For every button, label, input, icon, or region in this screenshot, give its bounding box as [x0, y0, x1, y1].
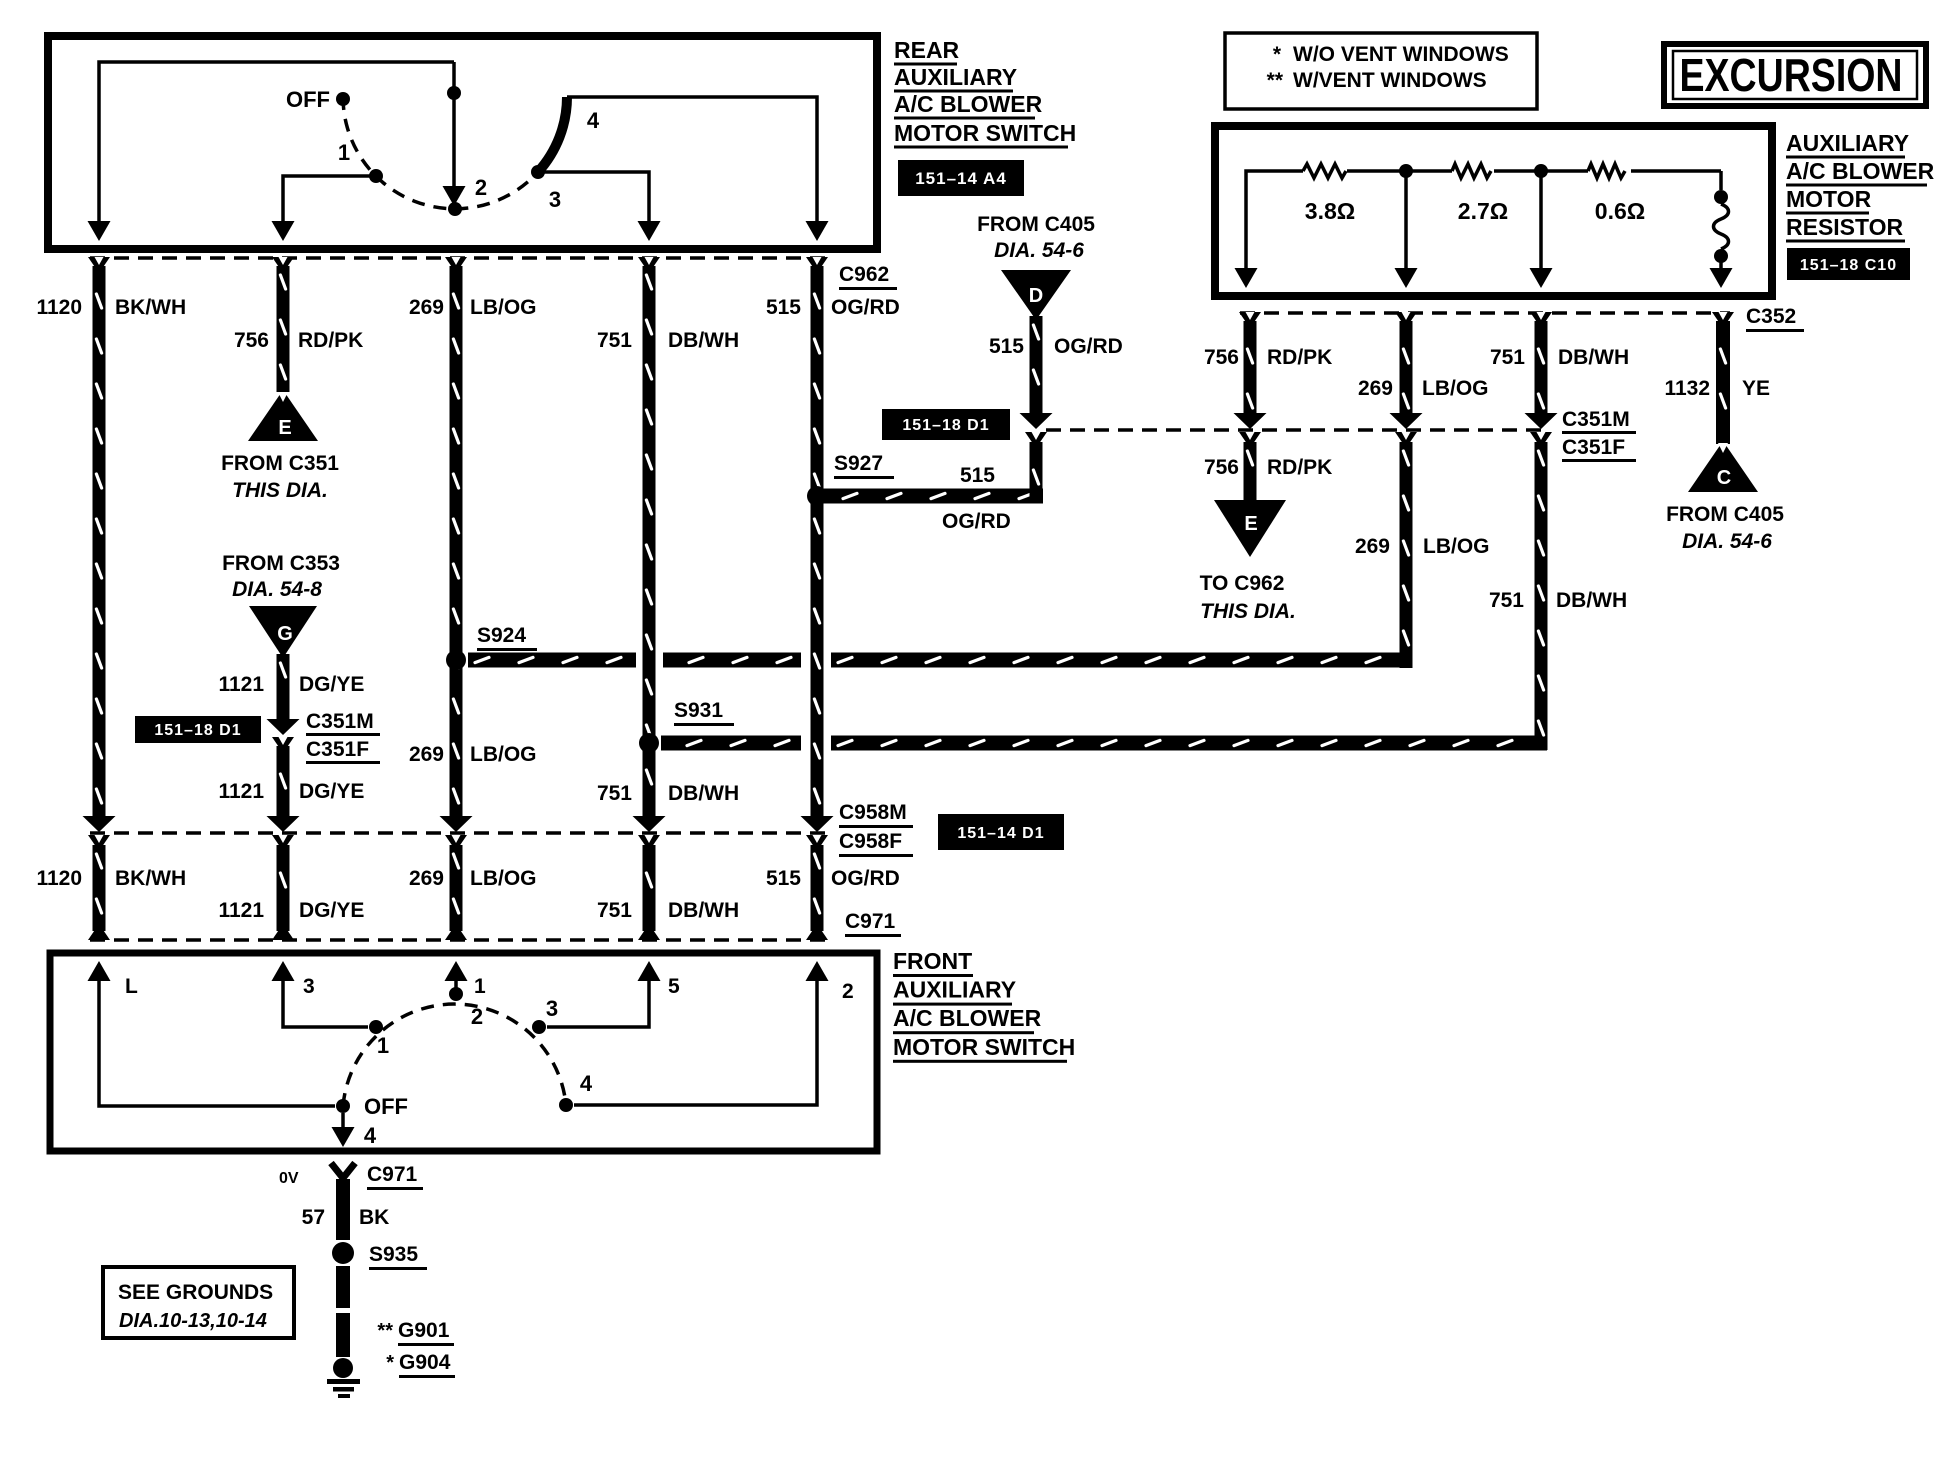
- grid ref 151-14 D1: [938, 814, 1064, 850]
- svg-text:*: *: [1273, 43, 1282, 66]
- ground symbol G901/G904: [327, 1379, 360, 1384]
- svg-text:1121: 1121: [218, 780, 264, 803]
- svg-text:MOTOR SWITCH: MOTOR SWITCH: [894, 120, 1076, 146]
- svg-text:751: 751: [597, 782, 632, 805]
- connector C351M/C351F inline on col2: arrow: [267, 719, 300, 735]
- svg-text:151–18 D1: 151–18 D1: [154, 722, 241, 739]
- wire 756 RD/PK (C351 to E): [1244, 442, 1257, 500]
- connector C352 terminal at x=1541: [1530, 312, 1552, 323]
- wire lower section at x=99: [93, 845, 106, 931]
- svg-text:C351F: C351F: [1562, 436, 1625, 459]
- svg-text:269: 269: [1355, 535, 1390, 558]
- svg-text:*: *: [386, 1352, 394, 1374]
- svg-text:C958F: C958F: [839, 830, 902, 853]
- connector C962 terminal at x=283: [272, 257, 294, 268]
- svg-text:4: 4: [587, 108, 600, 133]
- resistor assembly R1 AUXILIARY A/C BLOWER MOTOR RESISTOR enclosure: [1215, 126, 1772, 296]
- SW1 wiper column wire: [452, 62, 456, 192]
- svg-text:S931: S931: [674, 699, 723, 722]
- svg-text:DIA. 54-6: DIA. 54-6: [1682, 530, 1772, 553]
- svg-text:A/C BLOWER: A/C BLOWER: [893, 1005, 1042, 1031]
- SW1 contact 1: [369, 169, 383, 183]
- svg-text:57: 57: [302, 1206, 325, 1229]
- svg-text:2: 2: [475, 175, 487, 200]
- svg-text:E: E: [278, 417, 291, 439]
- wire 751 DB/WH (C351 down to S931 elbow): [1535, 442, 1548, 750]
- connector C958 pass-through at x=99: [83, 816, 116, 832]
- connector E (TO C962) triangle: [1214, 500, 1286, 557]
- connector C (FROM C405) triangle: [1688, 441, 1758, 492]
- connector C958 pass-through at x=283: [267, 816, 300, 832]
- SW1 contact 3: [531, 165, 545, 179]
- svg-text:OFF: OFF: [286, 87, 330, 112]
- SW2 contact 1: [369, 1020, 383, 1034]
- resistor element 0.6 ohm: [1588, 164, 1625, 178]
- wire 1121 DG/YE (C351 to C958): [277, 746, 290, 817]
- SW1 OFF contact: [336, 92, 350, 106]
- SW2 pin 1 arrow and wiper stem: [445, 961, 468, 981]
- R1 internal bus wire segments: [1246, 171, 1303, 272]
- svg-text:DB/WH: DB/WH: [668, 782, 739, 805]
- svg-text:DG/YE: DG/YE: [299, 780, 364, 803]
- svg-text:THIS DIA.: THIS DIA.: [1200, 600, 1296, 623]
- connector C971 (single, below SW2): [331, 1163, 355, 1178]
- svg-text:756: 756: [1204, 456, 1239, 479]
- wire lower section at x=456: [450, 845, 463, 931]
- svg-text:C971: C971: [845, 910, 896, 933]
- wire 269 LB/OG (right, upper): [1400, 321, 1413, 416]
- connector C958M/C958F dashed line: [90, 831, 831, 835]
- svg-text:THIS DIA.: THIS DIA.: [232, 479, 328, 502]
- svg-text:3: 3: [303, 975, 315, 998]
- svg-text:269: 269: [1358, 377, 1393, 400]
- connector C351 pass-through on 756 wire: [1234, 413, 1267, 429]
- svg-text:3: 3: [546, 996, 558, 1021]
- R1 tap wire med-high with arrow: [1539, 171, 1543, 272]
- wire 515 OG/RD (col5 upper): [811, 266, 824, 817]
- svg-text:RESISTOR: RESISTOR: [1786, 214, 1904, 240]
- R1 junction node C: [1534, 164, 1548, 178]
- svg-text:RD/PK: RD/PK: [1267, 346, 1332, 369]
- svg-text:1120: 1120: [36, 296, 82, 319]
- connector C962 terminal at x=817: [806, 257, 828, 268]
- wire S935 to ground (segment 2): [336, 1313, 350, 1357]
- svg-text:DB/WH: DB/WH: [668, 899, 739, 922]
- svg-text:2: 2: [471, 1004, 483, 1029]
- svg-text:**: **: [377, 1320, 393, 1342]
- svg-text:1: 1: [474, 975, 486, 998]
- wire splice S924 to 269 LB/OG riser (horizontal): [468, 653, 636, 668]
- svg-text:151–18 D1: 151–18 D1: [902, 417, 989, 434]
- ground terminal dot: [333, 1358, 353, 1378]
- wire D to S927 elbow (vertical): [1030, 442, 1043, 503]
- svg-text:5: 5: [668, 975, 680, 998]
- wire 1121 DG/YE (G to C351): [277, 654, 290, 719]
- SW1 pin 5 arrow: [638, 221, 661, 241]
- wire 1120 BK/WH (col1 upper): [93, 266, 106, 817]
- connector C351M/C351F inline on col2: socket: [272, 737, 294, 748]
- wire lower section at x=817: [811, 845, 824, 931]
- svg-text:G901: G901: [398, 1319, 450, 1342]
- resistor element 3.8 ohm: [1303, 164, 1346, 178]
- SW1 pin 2 arrow: [806, 221, 829, 241]
- svg-text:AUXILIARY: AUXILIARY: [894, 64, 1017, 90]
- svg-text:FROM C405: FROM C405: [1666, 503, 1784, 526]
- wire 1132 YE: [1716, 321, 1730, 444]
- svg-text:DIA. 54-6: DIA. 54-6: [994, 239, 1084, 262]
- svg-text:DG/YE: DG/YE: [299, 673, 364, 696]
- SW1 wire position4 to pin 2: [567, 97, 817, 222]
- svg-text:C962: C962: [839, 263, 889, 286]
- svg-text:0.6Ω: 0.6Ω: [1595, 198, 1645, 224]
- svg-text:FRONT: FRONT: [893, 948, 972, 974]
- SW2 contact 2 (top): [449, 987, 463, 1001]
- connector C962 terminal at x=99: [88, 257, 110, 268]
- wire 515 OG/RD from D: [1030, 316, 1043, 416]
- svg-text:LB/OG: LB/OG: [470, 743, 537, 766]
- note box SEE GROUNDS DIA.10-13,10-14: [103, 1267, 294, 1338]
- svg-text:0V: 0V: [279, 1170, 299, 1187]
- wire 751 DB/WH (col4 upper): [643, 266, 656, 817]
- svg-text:515: 515: [960, 464, 995, 487]
- svg-text:W/VENT WINDOWS: W/VENT WINDOWS: [1293, 69, 1487, 92]
- svg-text:C971: C971: [367, 1163, 418, 1186]
- svg-text:DB/WH: DB/WH: [1556, 589, 1627, 612]
- connector C971 dashed line: [90, 938, 831, 942]
- SW2 OFF output wire and arrow to pin 4: [341, 1113, 345, 1131]
- SW1 wiper position-4 contact bar (thick arc): [538, 97, 567, 172]
- wire lower section at x=283: [277, 845, 290, 931]
- note box vent windows: [1225, 33, 1537, 109]
- svg-text:RD/PK: RD/PK: [298, 329, 363, 352]
- svg-text:1132: 1132: [1664, 377, 1710, 400]
- svg-text:RD/PK: RD/PK: [1267, 456, 1332, 479]
- wire 57 BK: [336, 1179, 350, 1240]
- svg-text:MOTOR SWITCH: MOTOR SWITCH: [893, 1034, 1075, 1060]
- SW1 pin L arrow (down): [88, 221, 111, 241]
- wire 269 LB/OG (C351 down to S924 elbow): [1400, 442, 1413, 668]
- wire S935 to ground (segment 1): [336, 1266, 350, 1308]
- wire 756 RD/PK (col2 upper): [277, 266, 290, 392]
- svg-text:SEE GROUNDS: SEE GROUNDS: [118, 1281, 273, 1304]
- grid ref 151-18 C10: [1787, 248, 1910, 280]
- svg-text:OG/RD: OG/RD: [831, 867, 900, 890]
- svg-text:151–18 C10: 151–18 C10: [1800, 257, 1897, 274]
- connector C352 dashed line: [1240, 311, 1730, 315]
- svg-text:**: **: [1267, 69, 1284, 92]
- connector C958 pass-through at x=649: [633, 816, 666, 832]
- svg-text:OG/RD: OG/RD: [1054, 335, 1123, 358]
- SW2 rotary wiper dashed arc: [343, 1004, 566, 1106]
- wire lower section at x=649: [643, 845, 656, 931]
- svg-text:DB/WH: DB/WH: [1558, 346, 1629, 369]
- svg-text:EXCURSION: EXCURSION: [1680, 49, 1903, 101]
- svg-text:C958M: C958M: [839, 801, 907, 824]
- connector C962 dashed line: [90, 256, 831, 260]
- connector D (FROM C405) triangle: [1001, 270, 1071, 320]
- svg-text:756: 756: [1204, 346, 1239, 369]
- svg-text:DIA. 54-8: DIA. 54-8: [232, 578, 322, 601]
- svg-text:E: E: [1244, 513, 1257, 535]
- SW1 rotary wiper dashed arc: [343, 97, 538, 209]
- svg-text:FROM C353: FROM C353: [222, 552, 340, 575]
- svg-text:G904: G904: [399, 1351, 451, 1374]
- connector C351 pass-through on 751 wire: [1525, 413, 1558, 429]
- svg-text:1: 1: [338, 140, 350, 165]
- svg-text:C351M: C351M: [1562, 408, 1630, 431]
- SW1 pin 1 arrow: [272, 221, 295, 241]
- connector C351 pass-through on 269 wire: [1390, 413, 1423, 429]
- svg-text:515: 515: [989, 335, 1024, 358]
- resistor element 2.7 ohm: [1452, 164, 1491, 178]
- svg-text:4: 4: [364, 1123, 377, 1148]
- svg-text:2.7Ω: 2.7Ω: [1458, 198, 1508, 224]
- connector C958 pass-through at x=456: [440, 816, 473, 832]
- R1 right branch with thermal limiter coil: [1719, 171, 1723, 190]
- wire 269 LB/OG (col3 upper): [450, 266, 463, 817]
- R1 junction node B: [1399, 164, 1413, 178]
- svg-text:269: 269: [409, 867, 444, 890]
- splice S924: [446, 650, 466, 670]
- grid ref 151-18 D1 (right): [882, 409, 1010, 440]
- svg-text:S924: S924: [477, 624, 526, 647]
- svg-text:1120: 1120: [36, 867, 82, 890]
- svg-text:151–14 A4: 151–14 A4: [915, 169, 1007, 188]
- title box EXCURSION: [1664, 44, 1926, 106]
- svg-text:A/C BLOWER: A/C BLOWER: [1786, 158, 1935, 184]
- svg-text:FROM C351: FROM C351: [221, 452, 339, 475]
- switch SW1 REAR AUXILIARY A/C BLOWER MOTOR SWITCH enclosure: [48, 36, 877, 249]
- svg-text:FROM C405: FROM C405: [977, 213, 1095, 236]
- wire D to S927 (horizontal 515 OG/RD): [817, 489, 1043, 504]
- SW1 wire contact1 to pin 1: [283, 176, 376, 222]
- svg-text:OFF: OFF: [364, 1094, 408, 1119]
- svg-text:1121: 1121: [218, 673, 264, 696]
- svg-text:BK: BK: [359, 1206, 389, 1229]
- wire 756 RD/PK (right, upper): [1244, 321, 1257, 416]
- svg-text:LB/OG: LB/OG: [1423, 535, 1490, 558]
- svg-text:W/O VENT WINDOWS: W/O VENT WINDOWS: [1293, 43, 1509, 66]
- splice S927: [807, 486, 827, 506]
- svg-text:2: 2: [842, 980, 854, 1003]
- svg-text:C351M: C351M: [306, 710, 374, 733]
- svg-text:YE: YE: [1742, 377, 1770, 400]
- svg-text:C351F: C351F: [306, 738, 369, 761]
- SW2 contact 4: [559, 1098, 573, 1112]
- svg-text:DIA.10-13,10-14: DIA.10-13,10-14: [119, 1310, 267, 1332]
- svg-text:515: 515: [766, 296, 801, 319]
- SW2 pin 2 arrow and wire to contact 4: [806, 961, 829, 981]
- svg-text:C352: C352: [1746, 305, 1796, 328]
- svg-text:269: 269: [409, 296, 444, 319]
- svg-text:A/C BLOWER: A/C BLOWER: [894, 91, 1043, 117]
- connector G (FROM C353) triangle: [249, 606, 317, 658]
- svg-text:BK/WH: BK/WH: [115, 296, 186, 319]
- svg-text:AUXILIARY: AUXILIARY: [1786, 130, 1909, 156]
- R1 tap wire med-low with arrow: [1404, 171, 1408, 272]
- svg-text:TO C962: TO C962: [1200, 572, 1285, 595]
- SW1 wiper column arrow (down): [443, 186, 466, 206]
- svg-text:LB/OG: LB/OG: [1422, 377, 1489, 400]
- wire splice S931 to 751 DB/WH riser (horizontal): [661, 736, 801, 751]
- svg-text:LB/OG: LB/OG: [470, 296, 537, 319]
- splice S935: [332, 1242, 354, 1264]
- connector C962 terminal at x=649: [638, 257, 660, 268]
- SW1 contact 2 (bottom): [448, 202, 462, 216]
- svg-text:G: G: [277, 623, 293, 645]
- svg-text:751: 751: [1490, 346, 1525, 369]
- connector C351 pass-through on D wire: [1020, 413, 1053, 429]
- svg-text:1121: 1121: [218, 899, 264, 922]
- svg-text:S935: S935: [369, 1243, 418, 1266]
- svg-text:151–14 D1: 151–14 D1: [957, 825, 1044, 842]
- svg-text:BK/WH: BK/WH: [115, 867, 186, 890]
- svg-text:C: C: [1717, 467, 1731, 489]
- svg-text:515: 515: [766, 867, 801, 890]
- grid ref 151-18 D1 (left): [135, 716, 261, 743]
- svg-text:3.8Ω: 3.8Ω: [1305, 198, 1355, 224]
- svg-text:756: 756: [234, 329, 269, 352]
- SW2 pin 3 arrow and wire to contact 1: [272, 961, 295, 981]
- SW1 wire contact3 to pin 5: [538, 172, 649, 222]
- connector C352 terminal at x=1250: [1239, 312, 1261, 323]
- connector C962 terminal at x=456: [445, 257, 467, 268]
- svg-text:MOTOR: MOTOR: [1786, 186, 1872, 212]
- switch SW2 FRONT AUXILIARY A/C BLOWER MOTOR SWITCH enclosure: [50, 953, 877, 1151]
- SW2 contact 3: [532, 1020, 546, 1034]
- svg-text:S927: S927: [834, 452, 883, 475]
- connector E (FROM C351) triangle: [248, 390, 318, 441]
- svg-text:751: 751: [1489, 589, 1524, 612]
- SW2 pin L arrow (up) and wire to OFF: [88, 961, 111, 981]
- connector C352 terminal at x=1723: [1712, 312, 1734, 323]
- svg-text:AUXILIARY: AUXILIARY: [893, 977, 1016, 1003]
- svg-text:OG/RD: OG/RD: [831, 296, 900, 319]
- svg-text:D: D: [1029, 285, 1043, 307]
- connector C351M/C351F dashed line (right): [1046, 428, 1548, 432]
- SW1 junction on wiper column: [447, 86, 461, 100]
- svg-text:OG/RD: OG/RD: [942, 510, 1011, 533]
- svg-text:DB/WH: DB/WH: [668, 329, 739, 352]
- SW1 internal wire: feed bus from pin L to wiper column: [99, 62, 454, 230]
- SW2 OFF contact: [336, 1099, 350, 1113]
- wire 751 DB/WH (right, upper): [1535, 321, 1548, 416]
- connector C352 terminal at x=1406: [1395, 312, 1417, 323]
- svg-text:4: 4: [580, 1071, 593, 1096]
- connector C958 pass-through at x=817: [801, 816, 834, 832]
- svg-text:DG/YE: DG/YE: [299, 899, 364, 922]
- svg-text:L: L: [125, 975, 138, 998]
- svg-text:751: 751: [597, 899, 632, 922]
- svg-text:3: 3: [549, 187, 561, 212]
- svg-text:751: 751: [597, 329, 632, 352]
- R1 left tap arrow: [1235, 268, 1258, 288]
- svg-text:269: 269: [409, 743, 444, 766]
- grid ref 151-14 A4: [898, 160, 1024, 196]
- splice S931: [639, 733, 659, 753]
- SW2 pin 5 arrow and wire to contact 3: [638, 961, 661, 981]
- svg-text:REAR: REAR: [894, 37, 960, 63]
- svg-text:LB/OG: LB/OG: [470, 867, 537, 890]
- svg-text:1: 1: [377, 1033, 389, 1058]
